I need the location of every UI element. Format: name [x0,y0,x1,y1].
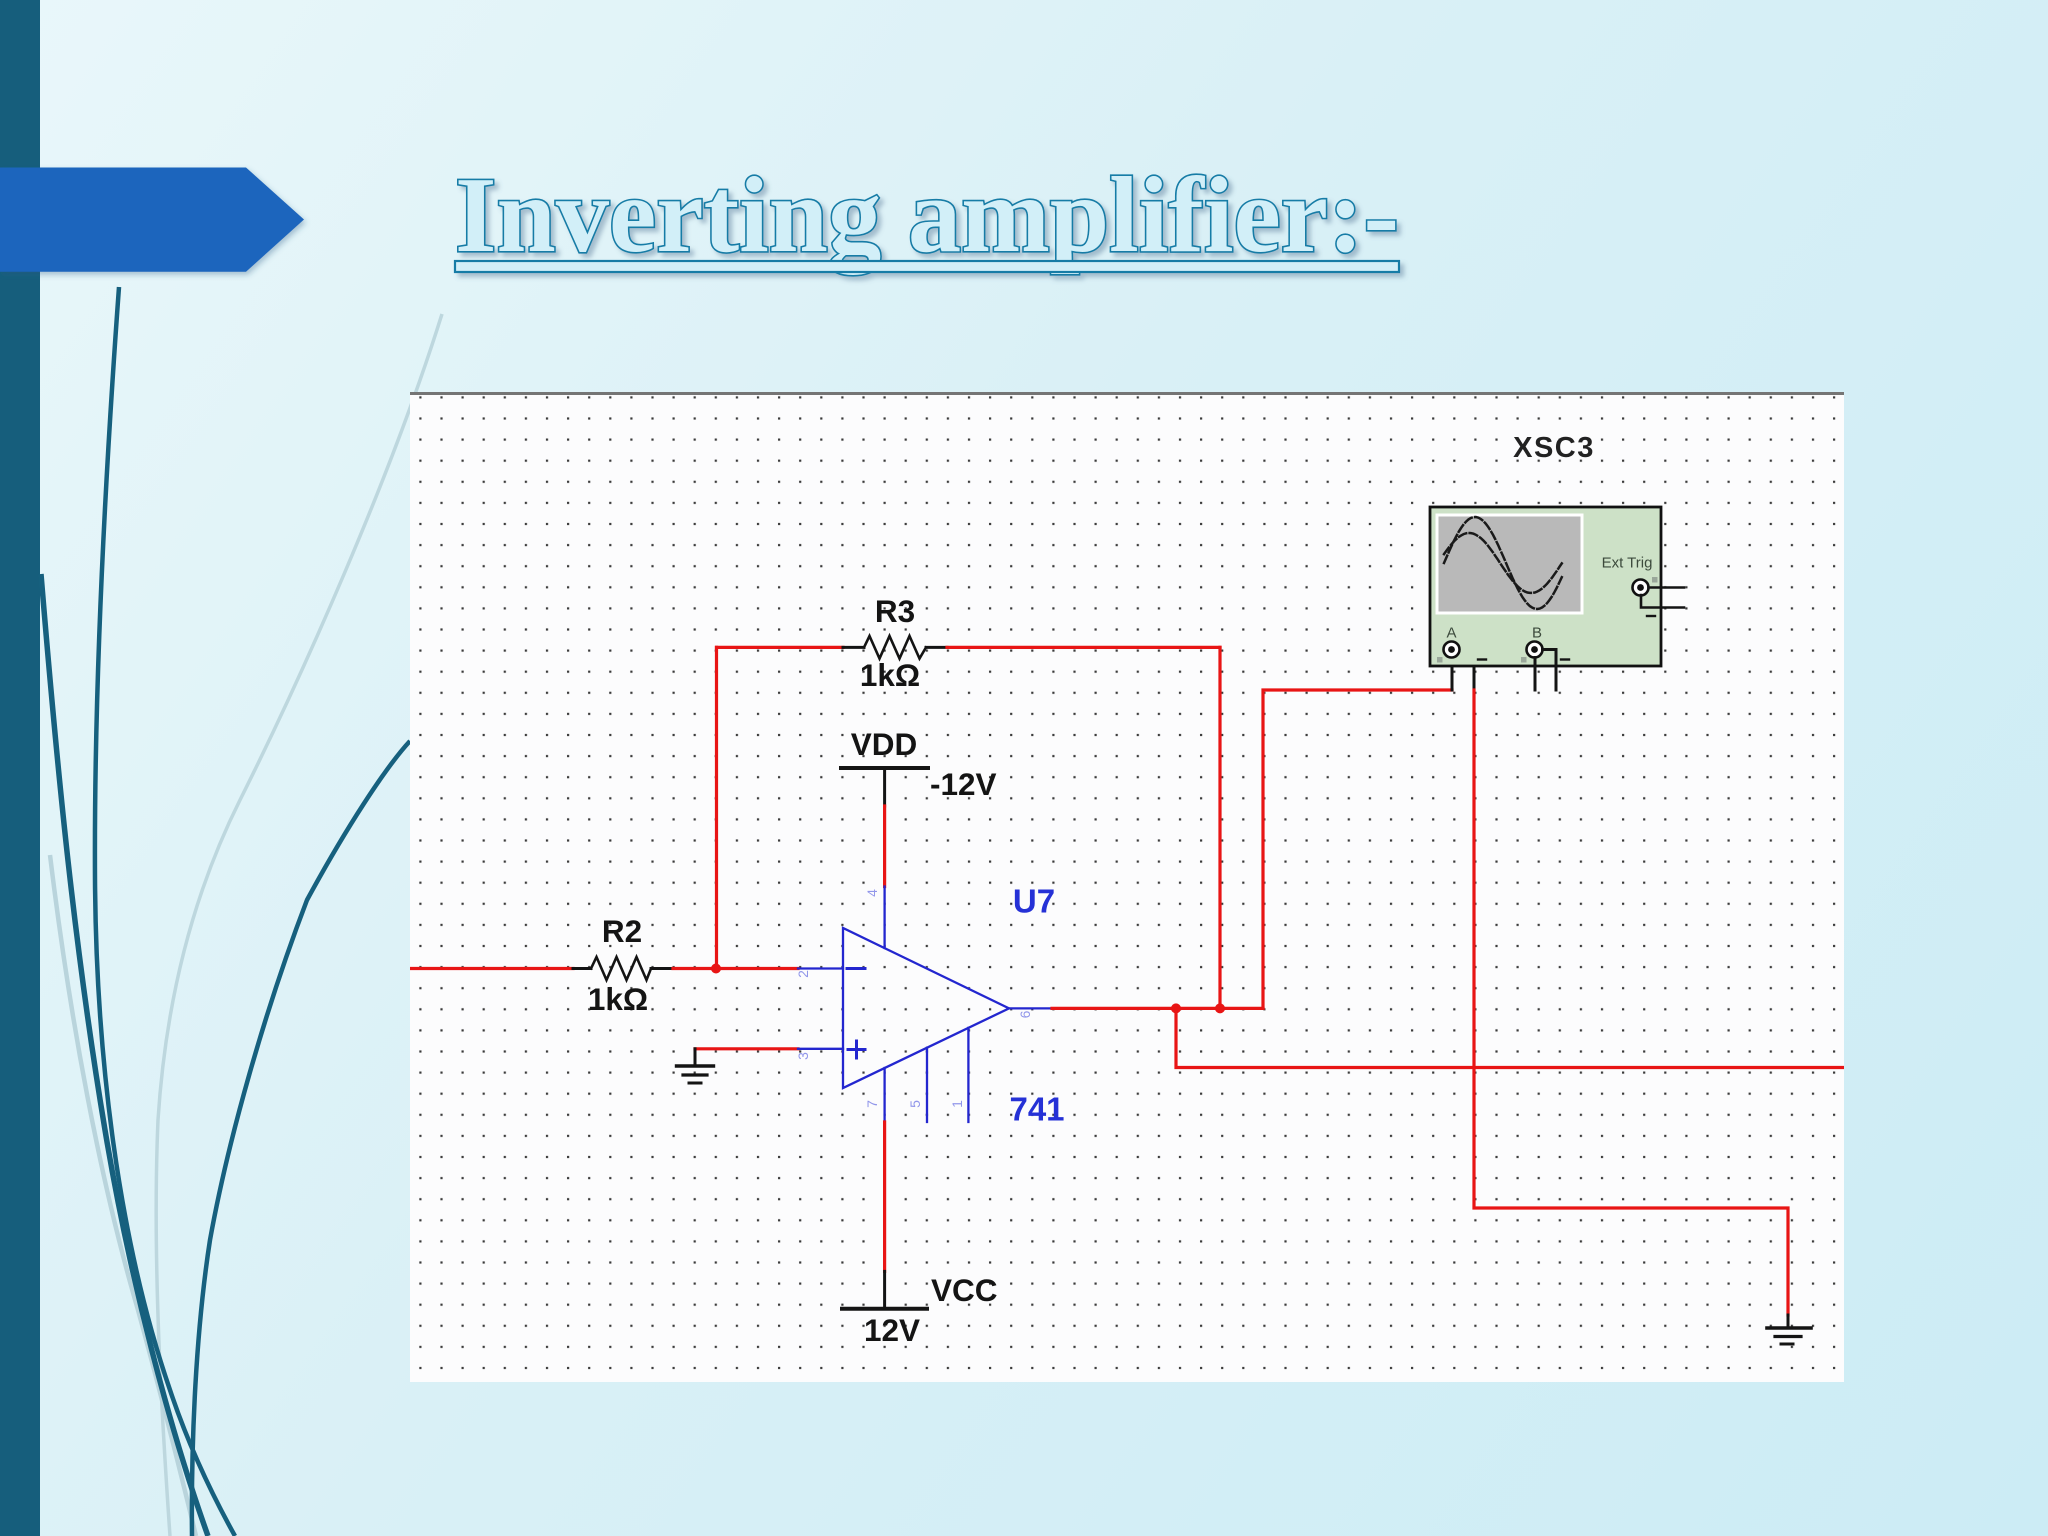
node junction out B [1215,1003,1225,1013]
svg-text:2: 2 [795,970,811,978]
op-amp U7 pin 4 lead [883,887,885,949]
pin 5 lead (blue) [926,1048,928,1122]
ground (scope) [1787,1315,1790,1328]
node junction at R2/feedback [711,964,721,974]
oscilloscope screen [1437,515,1582,613]
svg-text:B: B [1532,625,1542,642]
wire scope A minus to ground (red) [1474,690,1788,1315]
pin 6 lead (blue) [1009,1007,1052,1009]
terminal Ext Trig [1633,580,1649,596]
panel top border [410,392,1844,395]
terminal B stubs (black) [1534,658,1537,691]
decorative curve dark 3 [192,741,410,1536]
minus mark [847,967,865,970]
schematic panel [410,392,1844,1382]
left dark teal sidebar [0,0,40,1536]
svg-text:5: 5 [907,1100,923,1108]
wire to long bottom line (red) [1176,1008,1844,1067]
resistor R3 [843,646,947,649]
wire feedback horizontal to R3 [717,646,844,649]
title: Inverting amplifier:- [455,156,1399,275]
svg-text:7: 7 [864,1100,880,1108]
scope A minus stub (black) [1460,650,1474,691]
sine trace large [1444,517,1562,609]
svg-text:VCC: VCC [931,1272,998,1308]
svg-text:Inverting amplifier:-: Inverting amplifier:- [455,156,1399,275]
svg-text:R3: R3 [875,593,915,629]
decorative curve dark 1 [95,287,235,1536]
svg-text:-12V: -12V [930,766,997,802]
op-amp U7 triangle [843,928,1009,1088]
wire output (red) [1052,1007,1263,1010]
wire pin7 to VCC (red) [883,1122,886,1271]
wire feedback vertical [715,647,718,970]
svg-text:4: 4 [864,889,880,897]
power VCC symbol [883,1271,886,1308]
svg-text:12V: 12V [864,1312,920,1348]
wire R3 to output column (red) [947,646,1220,649]
decorative curve light 1 [156,314,442,1536]
svg-text:1kΩ: 1kΩ [860,657,920,693]
node junction out A [1171,1003,1181,1013]
ground (input) [694,1049,697,1066]
svg-text:R2: R2 [602,913,642,949]
svg-text:1kΩ: 1kΩ [588,981,648,1017]
wire output up to scope A (red) [1263,690,1452,1008]
svg-text:VDD: VDD [851,726,918,762]
svg-text:3: 3 [795,1052,811,1060]
wire VDD to pin4 (red) [883,806,886,887]
scope A plus stub (black) [1451,658,1454,691]
oscilloscope XSC3 body [1430,507,1661,666]
svg-text:Ext Trig: Ext Trig [1602,555,1653,572]
svg-text:741: 741 [1009,1091,1064,1128]
pin 1 lead (blue) [967,1028,969,1122]
wire output column vertical (red) [1218,647,1221,1008]
wire ground to pin3 (red) [695,1047,798,1050]
svg-text:A: A [1446,625,1456,642]
blue arrow banner [0,168,304,272]
sine trace small [1444,533,1562,593]
pin 3 lead (blue) [798,1048,843,1050]
decorative curve light 2 [50,855,196,1536]
resistor R2 [573,967,673,970]
decorative curve dark 2 [41,574,208,1536]
title underline [455,261,1399,272]
svg-text:XSC3: XSC3 [1513,432,1595,464]
power VDD symbol [841,766,928,770]
pin 2 lead (blue) [798,967,843,969]
svg-text:6: 6 [1017,1010,1033,1018]
plus mark [848,1041,865,1058]
svg-text:1: 1 [949,1100,965,1108]
wire R2 to node (red) [673,967,798,970]
svg-text:U7: U7 [1013,883,1055,920]
wire input (red) [410,967,573,970]
pin 7 lead (blue) [883,1068,885,1122]
